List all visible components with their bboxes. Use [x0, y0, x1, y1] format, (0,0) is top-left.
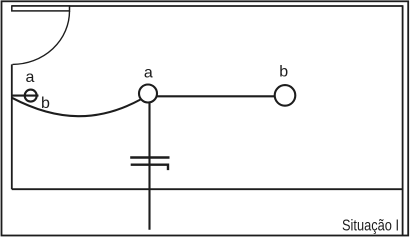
svg-text:a: a	[144, 64, 153, 81]
svg-text:a: a	[26, 69, 35, 86]
svg-text:Situação I: Situação I	[342, 218, 399, 235]
svg-text:b: b	[41, 95, 50, 112]
svg-text:b: b	[279, 64, 288, 81]
